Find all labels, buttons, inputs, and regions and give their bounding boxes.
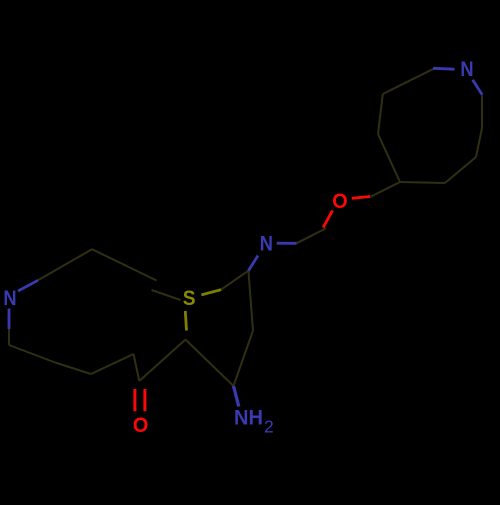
- bond O methoxy to CH2r (red): [352, 197, 370, 199]
- wire F to F2: [55, 363, 91, 375]
- wire G to carbonyl C: [134, 354, 140, 381]
- wire F2 to G: [91, 354, 134, 374]
- wire C4 to C5: [248, 271, 253, 331]
- wire C3 to C4: [234, 331, 254, 387]
- wire C8r to C9r: [476, 128, 482, 157]
- wire C2r to C3r: [383, 69, 434, 94]
- bond N1 to C2r (blue): [433, 67, 455, 71]
- wire C4r to Cc: [378, 134, 400, 182]
- svg-text:N: N: [260, 233, 273, 256]
- wire V1 to C5: [221, 271, 249, 290]
- wire N14 upper branch faint: A1 to A3: [38, 249, 92, 280]
- bond N1 to C7r (blue): [473, 80, 483, 95]
- wire C7r to C8r: [481, 95, 483, 128]
- svg-text:O: O: [133, 414, 148, 437]
- wire Ca to Cb: [297, 228, 326, 243]
- bond S to V1 (olive): [201, 290, 221, 295]
- wire C10r to Cc: [400, 182, 445, 183]
- bond N14 to A1 (blue): [18, 280, 38, 291]
- wire carbonyl C to thiophene C2: [139, 340, 185, 382]
- bond Cb to O methoxy (red): [323, 210, 332, 227]
- wire CH2r to Cc: [370, 182, 400, 197]
- wire C3r to C4r: [378, 94, 383, 134]
- svg-text:N: N: [3, 287, 16, 310]
- wire E1 to F: [9, 345, 55, 363]
- bond N7 to C5 (blue): [248, 256, 258, 271]
- double bond C=O line 1 (red): [133, 389, 136, 411]
- bond S to C2 (olive): [185, 311, 186, 331]
- wire N14 lower tail faint: [8, 329, 10, 345]
- wire A3 to B: [92, 249, 157, 280]
- wire C2 to C3: [186, 340, 234, 387]
- wire C9r to C10r: [445, 157, 476, 183]
- bond N14 down (blue): [8, 309, 11, 330]
- wire B toward S label: [152, 290, 181, 300]
- svg-text:N: N: [460, 58, 473, 81]
- svg-text:S: S: [183, 287, 196, 310]
- double bond C=O line 2 (red): [143, 389, 146, 411]
- bond N7 to Ca (blue): [277, 242, 297, 245]
- svg-text:O: O: [332, 190, 347, 213]
- bond C3 to NH2 (blue): [234, 386, 239, 407]
